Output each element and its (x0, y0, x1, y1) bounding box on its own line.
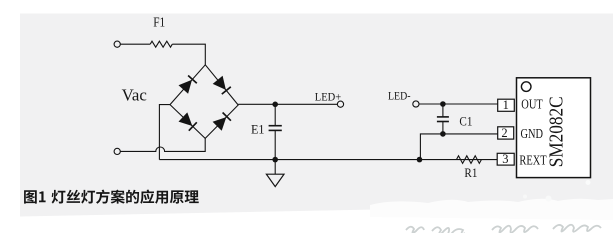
diode D2 upper-right (213, 76, 226, 90)
junction dot GND bottom rail (417, 157, 423, 163)
faint white speck on panel (586, 180, 591, 185)
svg-text:C1: C1 (459, 114, 472, 128)
svg-text:R1: R1 (464, 166, 477, 180)
svg-text:REXT: REXT (519, 152, 547, 167)
svg-text:LED+: LED+ (315, 90, 342, 104)
IC pin1 indicator circle (521, 82, 531, 92)
ground symbol triangle (266, 174, 284, 186)
svg-text:GND: GND (521, 126, 544, 141)
terminal AC bottom (114, 148, 120, 154)
wire bridge right node to LED+ terminal (238, 103, 337, 105)
fuse F1 zigzag (150, 41, 172, 47)
terminal AC top (114, 41, 120, 47)
capacitor C1 plates (437, 117, 449, 122)
junction dot E1 bottom (272, 157, 278, 163)
svg-text:3: 3 (502, 152, 508, 166)
wire bottom terminal with hop to bridge bottom node (120, 138, 205, 151)
wire LED- terminal to IC pin1 (419, 103, 498, 105)
diode D4 lower-right (213, 117, 227, 131)
bridge diamond (170, 65, 238, 139)
svg-text:F1: F1 (153, 15, 165, 30)
faint white speck on panel (546, 196, 552, 202)
svg-text:1: 1 (503, 98, 509, 112)
svg-text:OUT: OUT (521, 97, 543, 112)
faint white speck on panel (523, 195, 527, 199)
svg-text:E1: E1 (251, 123, 265, 137)
terminal LED+ (337, 101, 343, 107)
capacitor C1 stems (442, 104, 444, 117)
capacitor E1 stems (274, 104, 276, 125)
resistor R1 zigzag (456, 156, 481, 164)
IC U1 body SM2082C (517, 78, 591, 178)
junction dot C1 bottom (440, 131, 446, 137)
wire bridge left node down to bottom rail (159, 105, 170, 160)
diode D1 upper-left (179, 80, 193, 94)
capacitor E1 plates (269, 126, 282, 131)
junction dot C1 top (440, 101, 446, 107)
svg-text:LED-: LED- (388, 88, 411, 102)
diode D3 lower-left (179, 112, 193, 126)
terminal LED- (413, 101, 419, 107)
pin 3 box (497, 153, 514, 165)
caption 图1 灯丝灯方案的应用原理 (24, 190, 199, 204)
bottom rail wire (159, 159, 497, 161)
wire fuse to bridge top node (172, 44, 205, 65)
svg-text:Vac: Vac (122, 85, 148, 104)
pin 2 box (498, 127, 514, 139)
junction dot E1 top (272, 102, 278, 108)
svg-text:SM2082C: SM2082C (545, 96, 567, 167)
ground stem (274, 160, 276, 175)
svg-text:2: 2 (501, 126, 507, 140)
watermark gray squiggles bottom right (406, 225, 601, 236)
wire GND line pin2 to bottom rail (420, 134, 497, 160)
watermark white blob over panel bottom right (370, 199, 613, 220)
wire top terminal to fuse (120, 43, 150, 45)
pin 1 box (498, 99, 515, 111)
